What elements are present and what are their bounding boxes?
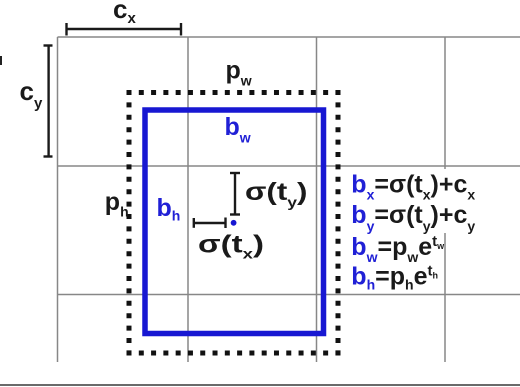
dotted prior box left edge — [127, 90, 132, 356]
c_x bracket left tick — [65, 23, 67, 36]
sigma t_x I-beam line — [194, 222, 226, 224]
grid horizontal line H2 — [58, 165, 520, 167]
c_x bracket right tick — [180, 23, 182, 36]
c_x bracket line — [67, 28, 182, 30]
svg-text:cx: cx — [113, 0, 136, 27]
svg-text:σ(tx): σ(tx) — [198, 231, 264, 262]
white patch behind equations covering V4 — [350, 169, 492, 233]
sigma t_x I-beam right tick — [224, 218, 226, 229]
bottom border line — [0, 384, 520, 386]
dotted prior box top edge — [127, 90, 344, 95]
svg-text:σ(ty): σ(ty) — [245, 178, 308, 210]
svg-text:cy: cy — [20, 76, 43, 112]
svg-text:bw: bw — [225, 113, 251, 146]
grid vertical line V4 — [444, 37, 446, 362]
grid vertical line V3 — [316, 37, 318, 362]
grid vertical line V2 — [187, 37, 189, 362]
c_y bracket top cap — [44, 44, 53, 46]
svg-text:pw: pw — [226, 57, 252, 89]
grid horizontal line H1 — [58, 36, 520, 38]
dotted prior box right edge — [336, 90, 341, 356]
grid horizontal line H3 — [58, 294, 520, 296]
svg-text:bh: bh — [157, 194, 181, 224]
svg-text:bw=pwetw: bw=pwetw — [351, 233, 445, 265]
svg-text:ph: ph — [105, 188, 129, 220]
svg-text:bh=pheth: bh=pheth — [351, 263, 438, 293]
blue center dot — [231, 220, 237, 226]
c_y bracket bottom cap — [44, 155, 53, 157]
dotted prior box bottom edge — [127, 351, 344, 356]
sigma t_y I-beam top cap — [230, 172, 240, 174]
cut-off glyph sliver at left edge — [0, 56, 2, 65]
sigma t_x I-beam left tick — [193, 218, 195, 228]
sigma t_y I-beam bottom cap — [230, 213, 240, 215]
blue predicted box — [145, 110, 324, 334]
sigma t_y I-beam stem — [234, 173, 236, 215]
grid vertical line V1 — [57, 37, 59, 362]
c_y bracket stem — [47, 46, 49, 157]
